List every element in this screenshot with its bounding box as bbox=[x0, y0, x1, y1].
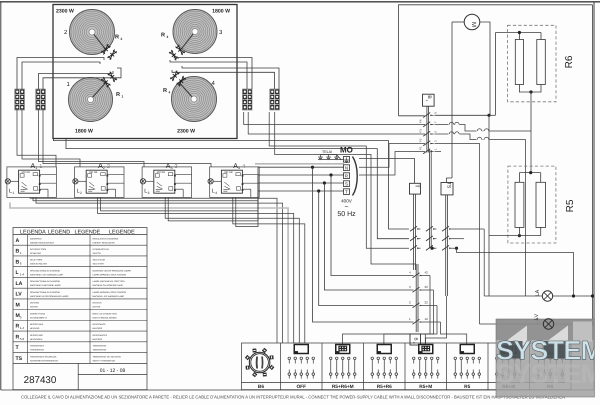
svg-text:B6: B6 bbox=[258, 384, 264, 390]
svg-text:MASCHINE IN BETRIEB LAMPE: MASCHINE IN BETRIEB LAMPE bbox=[30, 284, 61, 287]
svg-text:~: ~ bbox=[344, 204, 348, 211]
svg-text:4: 4 bbox=[215, 191, 217, 195]
svg-text:SELECTEUR: SELECTEUR bbox=[93, 259, 106, 262]
svg-text:RESISTENZA: RESISTENZA bbox=[30, 323, 44, 326]
svg-text:KLEMMENBRETT: KLEMMENBRETT bbox=[30, 316, 48, 319]
svg-text:MR SB: MR SB bbox=[22, 171, 30, 174]
svg-text:1: 1 bbox=[39, 164, 42, 170]
svg-text:3: 3 bbox=[175, 164, 178, 170]
svg-text:LAMPE MACHINE EN FONCTION: LAMPE MACHINE EN FONCTION bbox=[93, 280, 126, 283]
svg-text:01 - 12 - 08: 01 - 12 - 08 bbox=[100, 368, 126, 374]
svg-text:LA: LA bbox=[535, 289, 541, 296]
svg-text:ENERGY REGULATOR: ENERGY REGULATOR bbox=[93, 241, 116, 244]
svg-text:RESISTANCE: RESISTANCE bbox=[93, 323, 107, 326]
svg-text:COLLEGARE IL CAVO DI ALIMENTAZ: COLLEGARE IL CAVO DI ALIMENTAZIONE AD UN… bbox=[21, 394, 565, 399]
svg-text:MR SB: MR SB bbox=[224, 171, 232, 174]
svg-text:TELAI: TELAI bbox=[322, 150, 332, 154]
svg-text:M: M bbox=[470, 22, 477, 27]
svg-text:N: N bbox=[345, 165, 348, 170]
svg-text:MANOPOLE: MANOPOLE bbox=[30, 237, 42, 240]
svg-text:SELETTORE: SELETTORE bbox=[30, 259, 43, 262]
svg-text:MR SB: MR SB bbox=[157, 171, 165, 174]
svg-text:P2: P2 bbox=[419, 138, 423, 142]
svg-text:R5: R5 bbox=[464, 384, 470, 390]
svg-text:SICHERHEITSTHERMOSTAT: SICHERHEITSTHERMOSTAT bbox=[30, 359, 59, 362]
svg-text:1-4: 1-4 bbox=[20, 326, 25, 330]
svg-text:2300 W: 2300 W bbox=[177, 129, 195, 135]
svg-text:SAFETY THERMOSTAT: SAFETY THERMOSTAT bbox=[93, 359, 116, 362]
svg-text:4: 4 bbox=[238, 166, 240, 170]
svg-text:1-4: 1-4 bbox=[20, 272, 25, 276]
svg-text:287430: 287430 bbox=[24, 375, 57, 386]
svg-text:12: 12 bbox=[425, 317, 429, 321]
svg-text:MACHINE LIVE WARNING LAMP: MACHINE LIVE WARNING LAMP bbox=[93, 295, 125, 298]
svg-text:MASCHINE LIVE WARNING LAMP: MASCHINE LIVE WARNING LAMP bbox=[30, 273, 63, 276]
svg-text:WAHLSCHALTER: WAHLSCHALTER bbox=[30, 263, 47, 266]
svg-text:MOTORE: MOTORE bbox=[30, 302, 40, 305]
svg-text:P3: P3 bbox=[419, 129, 423, 133]
svg-text:R: R bbox=[163, 88, 167, 94]
svg-text:RESISTENZE: RESISTENZE bbox=[30, 334, 44, 337]
svg-text:1800 W: 1800 W bbox=[212, 9, 230, 15]
svg-text:MO: MO bbox=[340, 146, 353, 155]
svg-text:R5+R6: R5+R6 bbox=[377, 384, 392, 390]
svg-text:2: 2 bbox=[121, 37, 123, 41]
svg-text:TERMOSTATO SICUREZZA: TERMOSTATO SICUREZZA bbox=[30, 355, 57, 358]
svg-text:3: 3 bbox=[148, 191, 150, 195]
svg-text:LAMPE APPAREIL SOUS TENSION: LAMPE APPAREIL SOUS TENSION bbox=[93, 273, 127, 276]
svg-text:SPIA MACCHINA IN TENSIONE: SPIA MACCHINA IN TENSIONE bbox=[30, 291, 61, 294]
svg-text:400V: 400V bbox=[341, 198, 353, 203]
svg-text:LV: LV bbox=[534, 314, 540, 321]
svg-text:SELECTOR: SELECTOR bbox=[93, 263, 105, 266]
svg-text:LEGENDE: LEGENDE bbox=[109, 229, 135, 235]
svg-text:MOTEUR: MOTEUR bbox=[93, 302, 103, 305]
svg-text:TS: TS bbox=[446, 182, 452, 189]
svg-text:REGULATEUR D'ENERGIE: REGULATEUR D'ENERGIE bbox=[93, 237, 119, 240]
svg-text:MOTOR: MOTOR bbox=[93, 306, 101, 309]
svg-text:TS: TS bbox=[16, 356, 23, 362]
svg-text:50 Hz: 50 Hz bbox=[337, 211, 356, 218]
svg-text:THERMOSTAT: THERMOSTAT bbox=[30, 349, 45, 352]
svg-text:42: 42 bbox=[425, 271, 429, 275]
svg-text:WARME REGULIERUNG: WARME REGULIERUNG bbox=[30, 241, 54, 244]
svg-text:SPIA MACCHINA IN TENSIONE: SPIA MACCHINA IN TENSIONE bbox=[30, 269, 61, 272]
svg-text:INTERRUPTEUR: INTERRUPTEUR bbox=[93, 248, 110, 251]
svg-text:LV: LV bbox=[16, 292, 23, 298]
svg-text:THERMOSTAT DE SECURITE: THERMOSTAT DE SECURITE bbox=[93, 355, 122, 358]
svg-text:M: M bbox=[16, 302, 20, 308]
svg-text:3: 3 bbox=[167, 35, 169, 39]
svg-text:HEIZUNG: HEIZUNG bbox=[30, 327, 40, 330]
svg-text:R: R bbox=[161, 33, 165, 39]
svg-text:INTERRUTTORE: INTERRUTTORE bbox=[30, 248, 47, 251]
svg-text:P4: P4 bbox=[419, 119, 423, 123]
svg-text:32: 32 bbox=[425, 285, 429, 289]
svg-text:R: R bbox=[115, 35, 119, 41]
svg-text:MASCHINE UNTER SPANNUNG LAMPE: MASCHINE UNTER SPANNUNG LAMPE bbox=[93, 269, 132, 272]
svg-text:LEGEND: LEGEND bbox=[48, 229, 70, 235]
svg-text:LA: LA bbox=[16, 281, 23, 287]
svg-text:R: R bbox=[345, 173, 348, 178]
svg-text:MOTOR: MOTOR bbox=[30, 306, 38, 309]
svg-text:4: 4 bbox=[242, 164, 245, 170]
svg-text:2: 2 bbox=[103, 166, 105, 170]
svg-text:MR SB: MR SB bbox=[89, 171, 97, 174]
svg-text:S: S bbox=[345, 181, 348, 186]
svg-text:LEGENDE: LEGENDE bbox=[75, 229, 101, 235]
svg-text:3: 3 bbox=[171, 166, 173, 170]
svg-text:R5: R5 bbox=[565, 199, 576, 212]
svg-text:MAIN TERMINAL BOARD: MAIN TERMINAL BOARD bbox=[93, 316, 118, 319]
svg-text:THERMOSTAT: THERMOSTAT bbox=[93, 349, 108, 352]
svg-text:1800 W: 1800 W bbox=[75, 129, 93, 135]
svg-text:1: 1 bbox=[12, 191, 14, 195]
svg-text:LAMPE APPAREIL SOUS TENSION: LAMPE APPAREIL SOUS TENSION bbox=[93, 291, 127, 294]
svg-text:OFF: OFF bbox=[296, 384, 306, 390]
svg-text:1: 1 bbox=[35, 166, 37, 170]
svg-text:MACHINE ON WORKING LAMP: MACHINE ON WORKING LAMP bbox=[93, 284, 124, 287]
svg-text:2: 2 bbox=[80, 191, 82, 195]
svg-text:T: T bbox=[345, 189, 348, 194]
svg-text:MORSETTIERA: MORSETTIERA bbox=[30, 312, 46, 315]
svg-text:BOITE DE CONNECTION: BOITE DE CONNECTION bbox=[93, 312, 118, 315]
svg-text:HEIZUNGEN: HEIZUNGEN bbox=[30, 338, 43, 341]
svg-text:B: B bbox=[414, 337, 419, 340]
svg-text:HEATERS: HEATERS bbox=[93, 338, 103, 341]
svg-text:TERMOSTATO: TERMOSTATO bbox=[30, 345, 44, 348]
svg-text:SCHALTER: SCHALTER bbox=[30, 252, 41, 255]
svg-text:RESISTANCES: RESISTANCES bbox=[93, 334, 108, 337]
svg-text:LEGENDA: LEGENDA bbox=[20, 229, 46, 235]
svg-text:THERMOSTAT: THERMOSTAT bbox=[93, 345, 108, 348]
svg-text:2: 2 bbox=[107, 164, 110, 170]
svg-text:4: 4 bbox=[169, 91, 171, 95]
svg-text:R6: R6 bbox=[564, 55, 575, 68]
svg-text:P1: P1 bbox=[419, 146, 423, 150]
svg-text:R: R bbox=[116, 92, 120, 98]
svg-text:SWITCH: SWITCH bbox=[93, 252, 102, 255]
svg-text:R5+M: R5+M bbox=[419, 384, 432, 390]
svg-text:R5+R6+M: R5+R6+M bbox=[332, 384, 354, 390]
svg-text:MASCHINE UNTER SPANNUNG LAMPE: MASCHINE UNTER SPANNUNG LAMPE bbox=[30, 295, 69, 298]
svg-text:22: 22 bbox=[425, 301, 429, 305]
svg-text:2300 W: 2300 W bbox=[56, 9, 74, 15]
svg-text:1: 1 bbox=[122, 95, 124, 99]
svg-text:5-6: 5-6 bbox=[20, 337, 25, 341]
svg-text:SPIA MACCHINA IN FUNZIONE: SPIA MACCHINA IN FUNZIONE bbox=[30, 280, 61, 283]
svg-text:....: .... bbox=[16, 241, 20, 246]
svg-text:HEATERS: HEATERS bbox=[93, 327, 103, 330]
